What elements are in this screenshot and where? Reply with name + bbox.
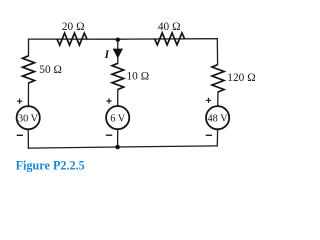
svg-text:40 Ω: 40 Ω	[158, 21, 181, 33]
svg-text:120 Ω: 120 Ω	[227, 72, 255, 84]
svg-text:10 Ω: 10 Ω	[127, 71, 150, 83]
svg-text:50 Ω: 50 Ω	[39, 64, 62, 76]
svg-text:I: I	[104, 49, 110, 61]
svg-text:30 V: 30 V	[18, 113, 39, 124]
svg-text:6 V: 6 V	[110, 113, 126, 124]
svg-text:20 Ω: 20 Ω	[62, 21, 85, 33]
svg-text:48 V: 48 V	[208, 113, 229, 124]
svg-text:Figure P2.2.5: Figure P2.2.5	[16, 159, 85, 173]
